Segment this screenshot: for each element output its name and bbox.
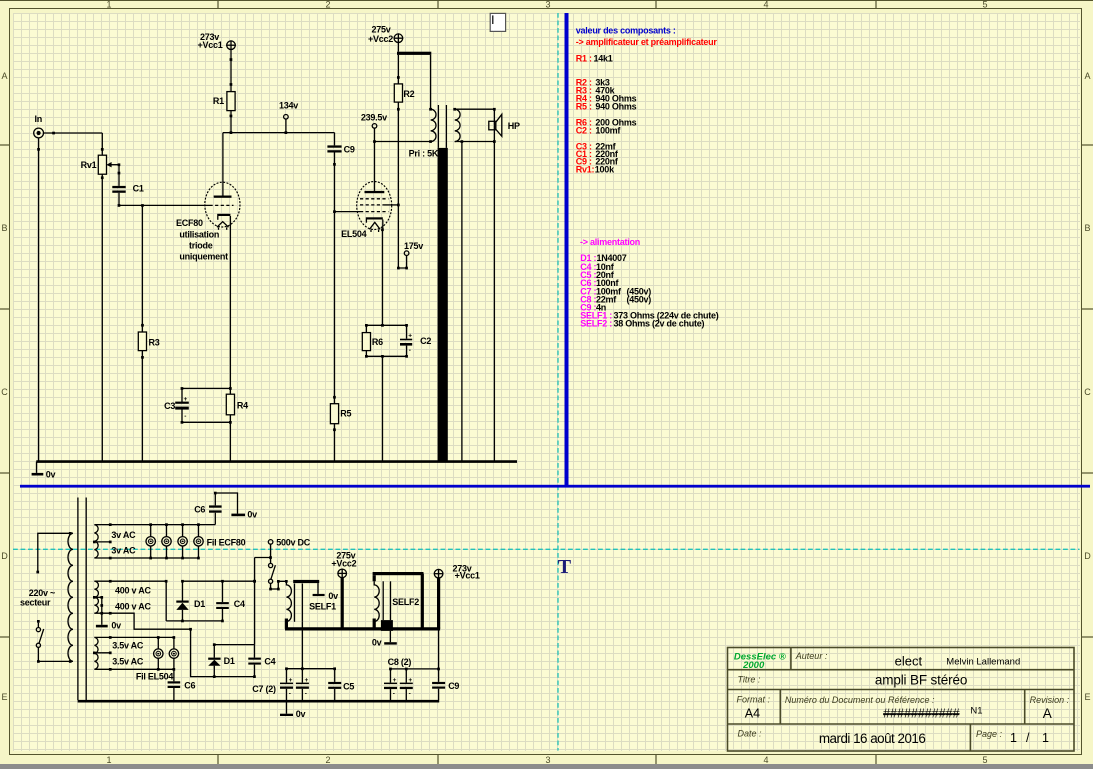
svg-text:+: + <box>305 677 309 684</box>
3.5v AC bottom rail <box>94 668 173 670</box>
svg-text:C2: C2 <box>420 336 431 346</box>
3v AC top rail <box>94 524 215 526</box>
svg-text:+: + <box>184 396 188 403</box>
title block frame <box>728 648 1075 752</box>
choke SELF2 top bar <box>373 572 424 575</box>
wire secondary return to rail <box>461 142 463 462</box>
ECF80 cathode line to C3/R4 <box>229 216 231 394</box>
wire C7 top <box>287 668 335 670</box>
svg-text:Titre :: Titre : <box>738 674 761 684</box>
svg-text:Pri : 5K: Pri : 5K <box>409 149 439 159</box>
EL504 cathode line <box>382 220 384 326</box>
svg-text:-: - <box>289 691 291 698</box>
svg-text:-: - <box>393 691 395 698</box>
resistor R1 <box>227 92 235 111</box>
capacitor C7 first <box>286 669 288 683</box>
input connector In <box>34 128 44 138</box>
svg-text:A: A <box>1084 71 1090 81</box>
svg-text:+: + <box>289 677 293 684</box>
svg-text:-: - <box>305 691 307 698</box>
power +Vcc2 275v <box>394 34 403 43</box>
svg-text:2: 2 <box>325 755 330 765</box>
SELF2 core block <box>381 620 393 631</box>
svg-text:4: 4 <box>763 755 768 765</box>
svg-text:R6: R6 <box>372 337 383 347</box>
wire C1 to ECF80 grid <box>119 204 210 206</box>
svg-text:+Vcc1: +Vcc1 <box>198 40 223 50</box>
white text box <box>490 13 505 31</box>
R6 C2 cathode network <box>366 324 406 326</box>
SELF2 core <box>382 581 384 620</box>
svg-text:2: 2 <box>325 0 330 10</box>
T2 3v winding <box>94 525 98 558</box>
svg-text:R5 :: R5 : <box>576 101 592 111</box>
SELF1 core line down to C7 <box>301 622 303 669</box>
svg-text:R1: R1 <box>213 96 224 106</box>
svg-text:R1 :: R1 : <box>576 53 592 63</box>
tube U1 ECF80 <box>205 182 240 227</box>
svg-text:-: - <box>409 691 411 698</box>
filament lamp 4 ECF80 <box>194 525 203 558</box>
SELF2 right thick lead <box>421 574 424 629</box>
svg-text:C8 (2): C8 (2) <box>388 657 412 667</box>
svg-text:1: 1 <box>106 755 111 765</box>
cyan dashed page-divider vertical <box>557 13 559 751</box>
ground 0v C6 top <box>231 514 245 517</box>
svg-text:B: B <box>1 223 7 233</box>
resistor R6 <box>365 325 367 332</box>
T2 3.5v winding <box>94 637 98 669</box>
svg-text:500v DC: 500v DC <box>276 537 311 547</box>
svg-text:2000: 2000 <box>742 660 765 671</box>
wire 220v top <box>38 533 73 572</box>
svg-text:T: T <box>558 556 572 578</box>
choke SELF1 winding <box>286 581 291 621</box>
wire Vcc1 to R1 <box>230 50 232 92</box>
svg-text:+Vcc2: +Vcc2 <box>368 34 393 44</box>
filament lamp 1 EL504 <box>154 637 163 669</box>
power +Vcc1 273v <box>227 41 236 50</box>
svg-text:14k1: 14k1 <box>594 53 613 63</box>
T1 core lines <box>437 105 439 148</box>
power transformer T2 core <box>77 498 79 701</box>
svg-text:Rv1: Rv1 <box>81 160 97 170</box>
svg-text:R5: R5 <box>340 409 351 419</box>
ground 0v below C7 <box>286 701 288 714</box>
svg-text:(450v): (450v) <box>627 295 652 305</box>
svg-text:D: D <box>1084 551 1091 561</box>
svg-text:+: + <box>393 677 397 684</box>
wire R2 down screen grid line <box>397 102 399 268</box>
svg-text:Date :: Date : <box>738 728 763 738</box>
svg-text:uniquement: uniquement <box>179 252 228 262</box>
B+ vertical line <box>254 558 256 645</box>
svg-text:N1: N1 <box>970 706 982 717</box>
svg-text:-> amplificateur et préamplifi: -> amplificateur et préamplificateur <box>576 37 718 47</box>
ground rail top schematic <box>36 460 517 463</box>
svg-text:3: 3 <box>545 0 550 10</box>
svg-text:Page :: Page : <box>976 729 1003 739</box>
svg-text:In: In <box>35 114 43 124</box>
wire Vcc1 down to C9 <box>438 629 440 669</box>
capacitor C1 <box>112 186 125 188</box>
svg-text:175v: 175v <box>404 241 423 251</box>
svg-text:A: A <box>1043 706 1052 721</box>
T2 220v primary winding <box>68 533 73 661</box>
switch SW1 mains <box>37 620 40 623</box>
svg-text:1: 1 <box>1010 731 1017 745</box>
svg-text:ECF80: ECF80 <box>176 218 203 228</box>
svg-text:C9: C9 <box>448 681 459 691</box>
SELF1 shield ground 0v <box>317 583 319 594</box>
svg-text:+Vcc1: +Vcc1 <box>455 571 480 581</box>
wire 500v to B+ line <box>255 557 271 559</box>
svg-text:mardi 16 août 2016: mardi 16 août 2016 <box>819 731 925 746</box>
capacitor C4 a <box>222 581 224 602</box>
capacitor C2 <box>406 325 408 338</box>
capacitor C7 second <box>301 669 303 683</box>
svg-text:0v: 0v <box>328 591 338 601</box>
capacitor C5 <box>334 669 336 682</box>
svg-text:R4: R4 <box>237 401 248 411</box>
svg-text:3v AC: 3v AC <box>111 546 136 556</box>
3v center tap stub <box>94 541 110 543</box>
Rv1 wiper arrow <box>108 164 119 166</box>
svg-text:-: - <box>409 347 411 354</box>
wire In to Rv1 <box>44 132 103 134</box>
svg-text:utilisation: utilisation <box>179 230 219 240</box>
svg-text:+Vcc2: +Vcc2 <box>331 559 356 569</box>
cyan dashed page-divider horizontal <box>13 548 1080 550</box>
svg-text:###########: ########### <box>883 707 960 721</box>
thick Vcc2 bus bar <box>397 43 399 52</box>
svg-text:HP: HP <box>508 121 520 131</box>
svg-text:C: C <box>1084 387 1091 397</box>
svg-text:4: 4 <box>763 0 768 10</box>
svg-text:C6: C6 <box>194 504 205 514</box>
capacitor C9 coupling <box>334 133 336 146</box>
wire In down to ground rail <box>38 138 40 462</box>
3.5v AC top rail <box>94 636 173 638</box>
SELF1 core <box>294 584 296 622</box>
svg-text:valeur des composants :: valeur des composants : <box>576 25 676 35</box>
filament lamp 3 ECF80 <box>178 525 187 558</box>
svg-text:3.5v AC: 3.5v AC <box>112 641 144 651</box>
svg-text:0v: 0v <box>372 638 382 648</box>
svg-text:E: E <box>1 692 7 702</box>
400v AC top rail <box>94 580 166 582</box>
T1 secondary <box>453 108 456 111</box>
svg-text:SELF2 :: SELF2 : <box>580 318 612 328</box>
wire C9 down to EL504 grid node <box>334 153 336 404</box>
wire C8 top <box>391 668 439 670</box>
svg-text:E: E <box>1084 692 1090 702</box>
resistor R2 <box>397 55 399 84</box>
svg-text:1: 1 <box>106 0 111 10</box>
output transformer T1 primary <box>430 55 432 109</box>
svg-text:secteur: secteur <box>20 598 51 608</box>
resistor R4 <box>182 387 230 389</box>
svg-text:C7 (2): C7 (2) <box>252 684 276 694</box>
svg-text:0v: 0v <box>247 510 257 520</box>
svg-text:C2 :: C2 : <box>576 125 592 135</box>
svg-text:400 v AC: 400 v AC <box>115 586 151 596</box>
svg-text:Auteur :: Auteur : <box>795 651 828 661</box>
capacitor C3 <box>181 388 183 402</box>
ground symbol 0v <box>36 462 38 473</box>
svg-text:Format :: Format : <box>737 694 771 704</box>
main ground rail bottom <box>78 700 440 703</box>
svg-text:0v: 0v <box>46 469 56 479</box>
svg-text:C4: C4 <box>264 657 275 667</box>
capacitor C9 supply <box>438 669 440 682</box>
svg-text:EL504: EL504 <box>341 229 367 239</box>
svg-text:C4: C4 <box>234 599 245 609</box>
svg-text:3v AC: 3v AC <box>111 530 136 540</box>
svg-text:D1: D1 <box>194 599 205 609</box>
svg-text:Revision :: Revision : <box>1030 695 1070 705</box>
svg-text:100mf: 100mf <box>595 125 621 135</box>
SELF2 ground 0v <box>389 631 391 642</box>
svg-text:940 Ohms: 940 Ohms <box>595 101 636 111</box>
capacitor C8 second <box>405 669 407 683</box>
svg-text:C3: C3 <box>164 401 175 411</box>
400v center tap to ground <box>94 596 101 598</box>
svg-text:triode: triode <box>189 240 213 250</box>
ECF80 anode lead <box>222 133 224 196</box>
svg-text:D: D <box>1 551 8 561</box>
svg-text:Rv1:: Rv1: <box>576 165 595 175</box>
svg-text:+: + <box>408 333 412 340</box>
svg-text:C: C <box>1 387 8 397</box>
svg-text:ampli BF stéréo: ampli BF stéréo <box>875 673 967 688</box>
T2 400v winding <box>94 581 98 613</box>
capacitor C4 b <box>254 645 256 658</box>
switch SW2 <box>270 558 272 564</box>
wire R1 to anode node <box>230 111 232 133</box>
wire HP line <box>493 109 495 461</box>
svg-text:100k: 100k <box>595 165 615 175</box>
svg-text:C6: C6 <box>184 681 195 691</box>
B+ line to rectifier b <box>214 644 254 646</box>
svg-text:5: 5 <box>982 0 987 10</box>
svg-text:R3: R3 <box>149 337 160 347</box>
potentiometer Rv1 <box>101 133 103 155</box>
blue separator horizontal line <box>20 485 1090 488</box>
svg-text:SELF2: SELF2 <box>392 597 419 607</box>
svg-text:A4: A4 <box>745 707 760 721</box>
node 500v DC <box>268 540 273 545</box>
svg-text:SELF1: SELF1 <box>309 601 336 611</box>
svg-text:38 Ohms (2v de chute): 38 Ohms (2v de chute) <box>614 318 705 328</box>
svg-text:220v ~: 220v ~ <box>29 588 55 598</box>
svg-text:elect: elect <box>895 653 923 668</box>
anode node wire 134v <box>223 132 335 134</box>
EL504 anode wire to transformer <box>375 141 431 143</box>
svg-text:3.5v AC: 3.5v AC <box>112 657 144 667</box>
power +Vcc2 tap <box>341 578 344 629</box>
wire grid EL504 <box>335 211 361 213</box>
SELF2 winding <box>374 581 379 621</box>
svg-text:C1: C1 <box>133 184 144 194</box>
svg-text:Melvin Lallemand: Melvin Lallemand <box>946 657 1020 668</box>
resistor R5 <box>333 396 336 399</box>
svg-text:+: + <box>408 677 412 684</box>
svg-text:134v: 134v <box>279 101 298 111</box>
3v AC bottom rail <box>94 557 198 559</box>
svg-text:C9: C9 <box>344 145 355 155</box>
rectifier a bottom rail <box>166 620 222 622</box>
svg-text:Fil EL504: Fil EL504 <box>136 672 174 682</box>
svg-text:B: B <box>1084 223 1090 233</box>
svg-text:Fil ECF80: Fil ECF80 <box>207 537 246 547</box>
svg-text:A: A <box>1 71 7 81</box>
filament lamp 2 ECF80 <box>162 525 171 558</box>
svg-text:1: 1 <box>1042 731 1049 745</box>
svg-text:0v: 0v <box>111 621 121 631</box>
T1 core bar <box>438 148 448 462</box>
svg-text:R2: R2 <box>403 89 414 99</box>
3.5v center tap stub <box>94 652 110 654</box>
blue separator vertical bar <box>565 13 569 486</box>
capacitor C8 first <box>390 669 392 683</box>
svg-text:239.5v: 239.5v <box>361 112 387 122</box>
resistor R3 <box>141 205 143 461</box>
capacitor C6 top <box>214 513 216 525</box>
speaker HP <box>489 121 496 130</box>
filament lamp 1 ECF80 <box>146 525 155 558</box>
diode D1 a <box>182 581 184 600</box>
diode D1 b <box>213 645 215 658</box>
thick B+ bottom rail <box>285 627 440 630</box>
power +Vcc1 tap <box>437 578 440 629</box>
svg-text:C5: C5 <box>343 681 354 691</box>
capacitor C6 bottom <box>173 669 175 681</box>
rectifier D1/C4 top rail <box>183 580 255 582</box>
400v AC lower wire to rectifier b <box>94 613 254 676</box>
svg-text:/: / <box>1026 731 1030 745</box>
svg-text:-: - <box>184 413 186 420</box>
svg-text:D1: D1 <box>224 656 235 666</box>
svg-text:400 v AC: 400 v AC <box>115 602 151 612</box>
svg-text:0v: 0v <box>296 709 306 719</box>
svg-text:Numéro du Document ou Référenc: Numéro du Document ou Référence : <box>785 695 935 705</box>
filament lamp 2 EL504 <box>169 637 178 669</box>
svg-text:5: 5 <box>982 755 987 765</box>
svg-text:-> alimentation: -> alimentation <box>580 237 640 247</box>
svg-text:3: 3 <box>545 755 550 765</box>
tube U2 EL504 <box>357 182 392 230</box>
